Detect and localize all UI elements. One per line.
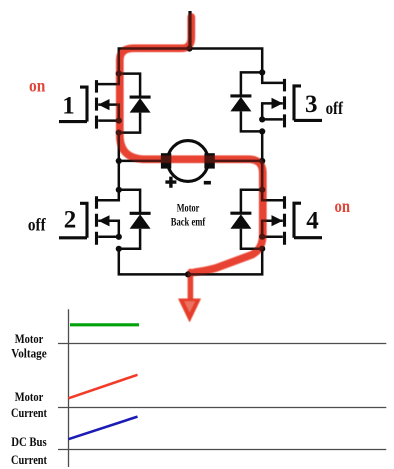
svg-text:Back emf: Back emf <box>171 215 206 229</box>
svg-text:off: off <box>326 98 344 118</box>
wire: motor lead left <box>119 160 163 163</box>
diode D1: body diode <box>119 74 140 133</box>
wire: highlighted current path (red) <box>120 17 263 322</box>
transistor Q3: source-body arrow <box>262 103 283 119</box>
svg-text:Motor: Motor <box>15 389 44 404</box>
motor M1: minus terminal label <box>204 181 211 185</box>
wire: left rail mid segment <box>118 133 121 190</box>
wire: bottom rail <box>119 249 262 275</box>
transistor Q3: gate bracket and lead <box>294 86 322 121</box>
node: Q3 source junction <box>259 116 265 122</box>
wire: supply lead (top) <box>188 11 191 49</box>
svg-text:off: off <box>28 215 47 235</box>
waveform: motor voltage (green) <box>70 323 139 326</box>
arrow: current direction (red, down) <box>188 272 193 302</box>
transistor Q1: drain lead <box>97 74 119 85</box>
node: Q1 source junction <box>116 118 122 124</box>
transistor Q1: source-body arrow <box>98 105 119 121</box>
waveform: motor current ramp (red) <box>68 375 137 399</box>
motor M1: plus terminal label <box>165 177 176 188</box>
node: motor right junction <box>259 158 265 164</box>
transistor Q4: source lead <box>262 235 283 238</box>
transistor Q3: drain lead <box>262 72 284 83</box>
svg-text:on: on <box>29 75 45 95</box>
svg-text:on: on <box>335 196 351 216</box>
svg-text:DC Bus: DC Bus <box>11 434 47 449</box>
svg-text:1: 1 <box>62 92 75 119</box>
node: D2 anode junction <box>116 246 122 252</box>
node: Q4 source junction <box>259 234 265 240</box>
transistor Q2: drain lead <box>97 190 119 201</box>
wire: highlighted current path (red overlay tint) <box>120 17 263 322</box>
wire: motor lead right <box>212 160 262 163</box>
node: Q2 source junction <box>116 234 122 240</box>
node: Q4 drain junction <box>259 187 265 193</box>
wire: right rail mid segment <box>261 131 264 189</box>
transistor Q2: channel bars <box>95 196 98 245</box>
transistor Q3: channel bars <box>283 79 286 128</box>
node: D4 anode junction <box>259 246 265 252</box>
transistor Q4: gate bracket and lead <box>294 203 322 238</box>
transistor Q2: gate bracket and lead <box>59 203 87 238</box>
transistor Q4: drain lead <box>262 190 284 201</box>
node: Q1 drain junction <box>116 71 122 77</box>
waveform: dc bus current ramp (blue) <box>68 417 137 440</box>
axis: baseline 3 (dc bus current) <box>58 449 386 451</box>
node: Q3 drain junction <box>259 69 265 75</box>
axis: baseline 2 (motor current) <box>58 407 386 409</box>
transistor Q2: source lead <box>98 236 119 239</box>
wire: top rail <box>119 49 262 74</box>
node: bottom center junction <box>185 271 191 277</box>
transistor Q3: source lead <box>262 118 283 121</box>
diode D4: body diode <box>241 190 262 249</box>
node: D3 anode junction <box>259 128 265 134</box>
svg-text:Current: Current <box>11 405 48 420</box>
node: Q2 drain junction <box>116 187 122 193</box>
transistor Q1: gate bracket and lead <box>59 87 87 122</box>
transistor Q1: source lead <box>98 119 119 122</box>
node: supply junction <box>186 45 192 51</box>
svg-text:Voltage: Voltage <box>11 346 47 361</box>
diode D3: body diode <box>241 72 262 131</box>
node: D1 anode junction <box>116 130 122 136</box>
svg-text:3: 3 <box>305 91 318 118</box>
svg-text:Motor: Motor <box>15 331 44 346</box>
motor M1: left brush <box>161 153 171 168</box>
axis: waveform vertical axis <box>68 309 70 467</box>
transistor Q4: channel bars <box>283 196 286 245</box>
transistor Q4: source-body arrow <box>262 221 283 237</box>
motor M1: body circle <box>168 141 209 182</box>
svg-text:Motor: Motor <box>177 200 200 214</box>
node: motor left junction <box>116 158 122 164</box>
svg-text:2: 2 <box>64 206 77 233</box>
diode D2: body diode <box>119 190 140 249</box>
svg-text:4: 4 <box>306 207 319 234</box>
motor M1: right brush <box>204 153 214 168</box>
transistor Q2: source-body arrow <box>98 221 119 237</box>
svg-text:Current: Current <box>11 452 48 467</box>
transistor Q1: channel bars <box>95 80 98 129</box>
axis: baseline 1 (motor voltage) <box>58 343 386 345</box>
